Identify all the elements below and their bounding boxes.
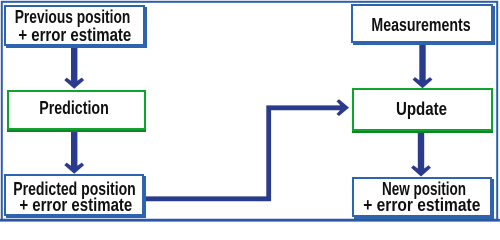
wire elbow (Predicted position -> Update): [146, 108, 341, 199]
box: Update: [352, 88, 493, 131]
label: Previous position: [15, 7, 131, 27]
arrow B (Prediction -> Predicted position): [64, 129, 84, 174]
label: New position: [382, 179, 466, 199]
frame bottom thick line: [0, 219, 500, 222]
box: New position + error estimate: [352, 177, 492, 217]
arrow A (Previous position -> Prediction): [64, 46, 84, 89]
arrowhead into Update: [337, 99, 350, 116]
label: + error estimate (top left): [18, 25, 131, 45]
box: Measurements: [351, 4, 493, 43]
label: Measurements: [371, 15, 470, 35]
label: Update: [396, 99, 447, 119]
box: Prediction: [7, 90, 146, 130]
arrow C (Measurements -> Update): [413, 42, 433, 88]
label: + error estimate (bottom right): [363, 195, 480, 215]
label: Prediction: [39, 98, 109, 118]
arrow D (Update -> New position): [411, 129, 431, 177]
label: + error estimate (bottom left): [19, 195, 132, 215]
label: Predicted position: [14, 179, 136, 199]
box: Predicted position + error estimate: [4, 174, 144, 216]
box: Previous position + error estimate: [4, 5, 145, 46]
